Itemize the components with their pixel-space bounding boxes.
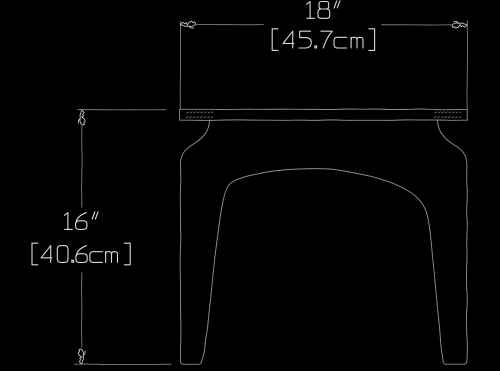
top dim line right segment bbox=[381, 24, 451, 26]
top dim arrow right bbox=[452, 21, 467, 28]
left dim extension line bottom bbox=[75, 363, 172, 365]
top dim extension line right bbox=[466, 21, 469, 109]
dim text 18 inches bbox=[307, 1, 340, 18]
left dim line upper segment bbox=[81, 126, 83, 207]
seat joint hidden hatch left bbox=[186, 112, 213, 118]
stool body outline (legs and arch) bbox=[180, 120, 467, 364]
dim text 45.7 cm bbox=[272, 29, 374, 51]
top dim extension line left bbox=[179, 21, 181, 109]
left dim extension line top bbox=[78, 109, 166, 111]
dim text 16 inches bbox=[64, 212, 98, 229]
top dim arrow left bbox=[181, 21, 196, 28]
left dim arrow down bbox=[78, 349, 85, 364]
seat joint hidden hatch right bbox=[434, 112, 461, 118]
dim text 40.6 cm bbox=[32, 243, 130, 265]
top dim line left segment bbox=[196, 24, 263, 26]
left dim arrow up bbox=[78, 110, 85, 125]
stool seat top board bbox=[180, 109, 468, 120]
left dim line lower segment bbox=[81, 273, 83, 347]
